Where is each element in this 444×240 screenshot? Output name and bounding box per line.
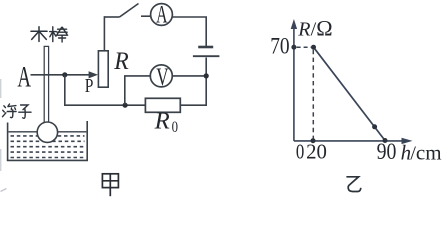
svg-text:A: A bbox=[156, 0, 167, 28]
node junction J3 bbox=[204, 73, 209, 78]
wire voltmeter right to riser bbox=[172, 75, 206, 77]
ammeter A bbox=[151, 4, 173, 26]
data point (20,70) bbox=[311, 45, 316, 50]
label jia (figure 1) glyph 甲 bbox=[102, 174, 118, 196]
wire J1 down bbox=[64, 75, 66, 105]
slider arrow P tip bbox=[89, 71, 98, 78]
svg-text:0: 0 bbox=[172, 119, 178, 137]
label fu-zi (float) glyph 浮 bbox=[3, 104, 17, 118]
switch S blade bbox=[120, 4, 139, 18]
label mu-bang glyph 棒 bbox=[50, 27, 68, 42]
label yi (figure 2) glyph 乙 bbox=[346, 177, 360, 192]
data point (80,10) bbox=[372, 124, 377, 129]
scan artifact left edge bbox=[0, 79, 1, 98]
graph y-axis R/ohm bbox=[293, 29, 295, 141]
data point (90,0) bbox=[383, 138, 388, 143]
water shading dashes bbox=[11, 136, 85, 158]
svg-text:20: 20 bbox=[306, 140, 327, 164]
label fu-zi glyph 子 bbox=[19, 105, 31, 118]
resistor R0 bbox=[145, 98, 180, 112]
dashed line 70 horizontal bbox=[297, 46, 311, 48]
float ball bbox=[37, 122, 57, 142]
svg-text:90: 90 bbox=[377, 139, 397, 165]
wire voltmeter left to J2 bbox=[125, 76, 151, 105]
battery short plate bbox=[198, 46, 213, 49]
node junction J2 bbox=[123, 103, 128, 108]
svg-text:R: R bbox=[113, 47, 129, 75]
svg-text:cm: cm bbox=[416, 140, 442, 164]
node junction J1 bbox=[62, 72, 67, 77]
wooden rod body bbox=[44, 46, 48, 122]
wire ammeter left stub bbox=[141, 15, 151, 17]
wire switch left lead bbox=[104, 16, 119, 18]
svg-text:V: V bbox=[156, 63, 169, 91]
data point on y-axis at 70 bbox=[291, 45, 296, 50]
svg-text:R: R bbox=[154, 108, 170, 135]
voltmeter V bbox=[150, 65, 172, 87]
dashed line 20 vertical bbox=[312, 50, 314, 140]
svg-text:70: 70 bbox=[270, 33, 289, 59]
graph x-axis h/cm bbox=[294, 140, 402, 142]
rheostat R body bbox=[98, 51, 108, 87]
svg-text:R: R bbox=[297, 18, 310, 40]
svg-text:P: P bbox=[85, 74, 94, 96]
scan artifact bottom left bbox=[1, 189, 7, 192]
wire bottom rail left bbox=[64, 104, 145, 106]
wire battery up and top rail to ammeter bbox=[172, 17, 206, 46]
water surface line bbox=[8, 131, 86, 133]
wire down to rheostat top bbox=[103, 16, 105, 51]
battery long plate bbox=[193, 55, 220, 57]
curve R vs h bbox=[314, 47, 386, 140]
svg-text:0: 0 bbox=[296, 141, 304, 164]
svg-text:Ω: Ω bbox=[316, 15, 332, 40]
label mu-bang (wooden rod) glyph 木 bbox=[31, 27, 47, 42]
tank left wall bbox=[7, 123, 9, 161]
svg-text:A: A bbox=[17, 61, 31, 93]
tank right wall bbox=[86, 121, 88, 160]
wire node A horizontal lead to slider bbox=[31, 74, 91, 76]
wire bottom rail right + right riser bbox=[180, 58, 206, 106]
tank bottom bbox=[7, 159, 88, 161]
data point (20,0) bbox=[311, 138, 316, 143]
